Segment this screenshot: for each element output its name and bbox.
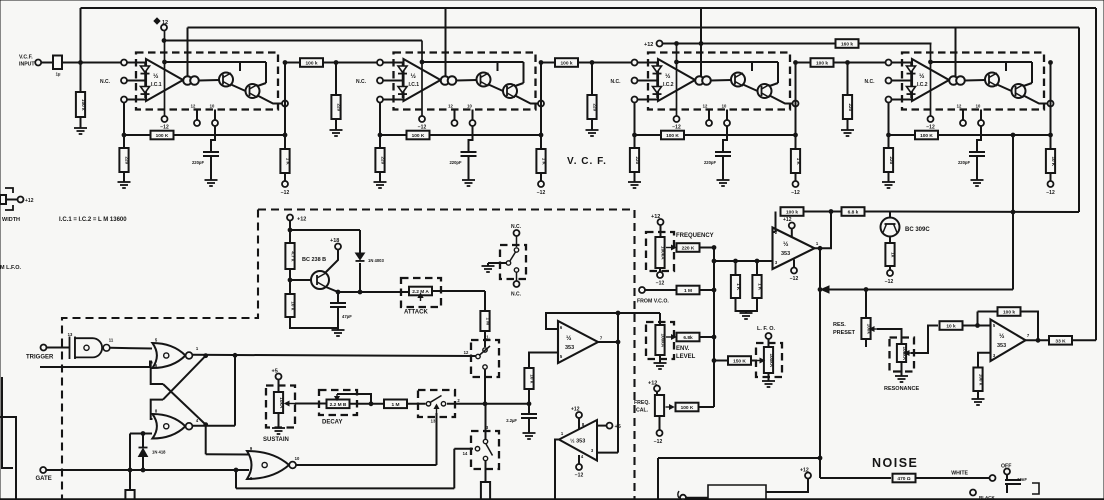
svg-text:M L.F.O.: M L.F.O. [0, 265, 22, 271]
wire load res to -12 stage 4 [1050, 173, 1052, 181]
wire 10k up to pin5 [529, 353, 558, 369]
svg-text:½: ½ [919, 72, 925, 80]
svg-text:220: 220 [125, 156, 130, 164]
wire diode vertical [359, 230, 361, 292]
junction bus env [712, 335, 716, 339]
pot box ATTACK [401, 278, 441, 307]
svg-text:10: 10 [210, 104, 215, 109]
transistor buffer T2 stage 3 [758, 84, 772, 98]
wire freqcal bottom [659, 416, 661, 430]
wire RC cap top [528, 404, 530, 414]
pin terminal signal-in stage 2 [377, 60, 383, 66]
resistor 100k ucv feedback [781, 207, 804, 216]
arrowhead resonance feed [821, 286, 829, 293]
ground res opamp [972, 397, 985, 405]
terminal +12 width [18, 197, 24, 203]
transistor buffer T1 stage 2 [477, 73, 491, 87]
svg-text:V.C.F.: V.C.F. [19, 55, 33, 61]
label OFF [1001, 464, 1011, 470]
junction bus lfo [712, 359, 716, 363]
svg-text:N.C.: N.C. [100, 79, 111, 85]
ground resonance [895, 374, 908, 382]
resistor 160k on +12 rail [0, 0, 1, 1]
wire env out to noise line [658, 457, 820, 459]
ground termination 3-4 [841, 126, 854, 136]
svg-text:100 k: 100 k [816, 61, 828, 67]
resistor 220 termination 3-4 [843, 95, 853, 119]
resistor 100K freqcal [676, 403, 699, 412]
terminal +18 [335, 244, 341, 250]
terminal WHITE [990, 475, 996, 481]
svg-text:12: 12 [191, 104, 196, 109]
label -12 freqcal [654, 439, 663, 445]
wire termination drop 3-4 [847, 63, 849, 96]
pin terminal signal-in stage 4 [886, 60, 892, 66]
terminal +12 noise [805, 473, 811, 479]
pin terminal 12 stage 3 [706, 120, 712, 126]
wire S13 wiper to NOR3 line [436, 413, 438, 465]
gate NAND trigger [68, 332, 114, 359]
wiper arrow FREQUENCY [666, 245, 676, 249]
wire diode to gate line [142, 457, 144, 471]
wire +12 freq stub [660, 225, 662, 237]
svg-text:I.C.1: I.C.1 [409, 82, 420, 88]
wire ucv out [815, 212, 832, 249]
svg-text:10 k: 10 k [530, 374, 535, 383]
diode D-lower stage 2 [398, 87, 407, 95]
svg-text:220: 220 [848, 103, 853, 111]
svg-text:−12: −12 [1046, 190, 1055, 196]
wire 1M to switch11 [484, 331, 486, 347]
ground 220 stage 4 [882, 178, 895, 188]
wire cap to gnd [528, 418, 530, 431]
wire resfb left [978, 311, 999, 313]
label 220pF stage 2 [449, 160, 462, 165]
wire decay to 1M res [350, 403, 384, 405]
gate NOR1 latch [152, 343, 192, 368]
label N.C. stage 1 [100, 79, 111, 85]
svg-text:6.8k: 6.8k [683, 335, 693, 341]
potentiometer LFO 100k [764, 347, 774, 373]
wire termination to gnd 3-4 [847, 119, 849, 126]
pot box LFO [756, 343, 782, 377]
junction emitter node [336, 290, 340, 294]
svg-text:1 K: 1 K [796, 158, 801, 166]
svg-text:FREQ.: FREQ. [634, 400, 650, 406]
wire latch cross 2 stub [151, 400, 163, 419]
terminal -12 bc309 [887, 270, 893, 276]
IC package dashed box stage 1 [136, 53, 278, 110]
svg-text:−12: −12 [791, 190, 800, 196]
terminal +12 stage3 [657, 41, 663, 47]
terminal LFO in [766, 333, 772, 339]
wire feedback line stage 2 [380, 134, 541, 136]
label V.C.F. INPUT line1 [19, 55, 33, 61]
output circles OTA stage 4 [949, 76, 965, 85]
junction input node rail-A [79, 61, 83, 65]
wire RC to 10k res [528, 389, 530, 404]
junction res out fb [1036, 338, 1040, 342]
terminal +12 ucv [789, 223, 795, 229]
op-amp OTA I.C.2 stage 3 [658, 59, 695, 101]
junction output chain stage 2 [539, 61, 543, 65]
ground 2.2uF [523, 431, 536, 439]
wire rail-C +12 stage1 to stage2 [164, 40, 422, 42]
wire T1 collector stage 1 [239, 62, 241, 71]
junction noise line [818, 456, 822, 460]
resistor output load stage 1 [280, 149, 290, 173]
wire OTA out to buffer stage 3 [711, 79, 731, 82]
svg-text:FREQUENCY: FREQUENCY [676, 233, 714, 239]
wire +12 noise drop [766, 479, 808, 493]
svg-text:220pF: 220pF [704, 160, 717, 165]
label SUSTAIN [263, 437, 289, 443]
svg-text:−12: −12 [418, 125, 427, 131]
output circles OTA stage 2 [441, 76, 457, 85]
wire bus rail-B right drop to BC309 collector [1078, 28, 1080, 213]
label V.C.F. section [567, 156, 607, 167]
wire N.C. stub stage 3 [638, 80, 658, 82]
svg-text:−12: −12 [575, 473, 584, 479]
pot box FREQUENCY [646, 232, 674, 271]
capacitor 47pF [330, 303, 346, 307]
svg-text:−12: −12 [926, 125, 935, 131]
wire sustain wiper to decay [295, 403, 326, 405]
svg-text:−12: −12 [537, 190, 546, 196]
wire resonance feed [820, 289, 1013, 291]
wire S11 bottom drop [484, 369, 486, 404]
diode linearizing upper stage 3 [656, 63, 658, 98]
wire NOR1 output line [192, 355, 476, 356]
wire fb node vertical stage 4 [888, 103, 890, 148]
wire T2 collector diag stage 1 [258, 83, 267, 86]
ground cap stage 4 [971, 176, 984, 186]
switch box S11-attack [471, 340, 499, 377]
pin labels U-res [993, 323, 1030, 358]
junction ucv out riser [829, 210, 833, 214]
svg-text:I.C.1: I.C.1 [151, 82, 162, 88]
diode 1N4148 gate [139, 448, 148, 457]
svg-text:10kA: 10kA [279, 397, 284, 409]
capacitor 2.2uF [521, 414, 537, 418]
wire bus +12 top rail [81, 7, 1097, 9]
ground 220 stage 3 [628, 178, 641, 188]
wire 33K to rail [1072, 339, 1096, 341]
wire bus to op pin3 [714, 260, 774, 262]
svg-text:47pF: 47pF [342, 314, 352, 319]
wire S14 drop [453, 449, 455, 489]
wire bc309 base stub [889, 212, 891, 218]
svg-text:100 k: 100 k [1003, 310, 1015, 316]
svg-text:FROM V.C.O.: FROM V.C.O. [637, 299, 669, 305]
svg-text:12: 12 [703, 104, 708, 109]
wire latch to NOR1 line [234, 355, 236, 425]
pin labels 12 10 stage 4 [957, 104, 981, 109]
terminal -12 load stage 4 [1048, 181, 1054, 187]
wire fb-in stub stage 3 [638, 99, 660, 101]
svg-text:100kA: 100kA [661, 246, 666, 260]
svg-text:33 K: 33 K [1055, 338, 1066, 344]
wiper arrow ENV LEVEL [666, 335, 676, 339]
label BC 309C [905, 227, 930, 233]
label NOISE [872, 456, 918, 470]
potentiometer ENV LEVEL 100k [655, 325, 665, 355]
junction rail-C start [162, 39, 166, 43]
ground env pot [654, 361, 667, 369]
wire cap tail [1006, 484, 1008, 493]
wire BC238 emitter [326, 287, 338, 292]
wire 1M to bus [700, 289, 715, 291]
wire T2 emitter to out stage 1 [258, 96, 282, 104]
wire T2 emitter to out stage 4 [1024, 96, 1048, 104]
IC package dashed box stage 2 [394, 53, 536, 110]
pin labels NOR1 [155, 338, 199, 369]
label ENV. [676, 346, 690, 352]
junction env +12 rail [288, 228, 292, 232]
transistor buffer T1 stage 3 [731, 73, 745, 87]
junction decay wiper [369, 402, 373, 406]
junction stage3 drop on rail-C2 [675, 42, 679, 46]
label GATE [36, 476, 52, 482]
wire T2 collector stage 3 [777, 62, 779, 83]
label 220pF stage 1 [192, 160, 205, 165]
wire rail-C2 +12 stage3 to stage4 [663, 43, 932, 45]
pin terminal fb-in stage 3 [632, 97, 638, 103]
resistor 220 termination 2-3 [587, 95, 597, 119]
wire chain stage3-out to stage4-in [796, 62, 913, 64]
svg-text:RES.: RES. [833, 322, 846, 328]
label +12 width [25, 198, 34, 204]
IC package dashed box stage 4 [902, 53, 1044, 110]
wire decay wiper up-over [337, 394, 371, 404]
pot box ENV LEVEL [646, 322, 674, 359]
svg-text:+12: +12 [644, 42, 653, 48]
ground SUSTAIN [272, 426, 285, 434]
wire T2 collector diag stage 3 [770, 83, 779, 86]
junction termination 1-2 [334, 61, 338, 65]
svg-text:12: 12 [464, 350, 469, 355]
svg-text:1 K: 1 K [286, 158, 291, 166]
ground cap stage 2 [462, 176, 475, 186]
svg-text:220pF: 220pF [192, 160, 205, 165]
wire 220 res to gnd stage 3 [634, 172, 636, 178]
label RES. [833, 322, 846, 328]
label +12 envelope [297, 217, 306, 223]
wire T2 collector diag stage 4 [1024, 83, 1033, 86]
wire res preset drop [865, 290, 867, 319]
switch S14 contacts [463, 425, 493, 461]
junction termination 2-3 [590, 61, 594, 65]
svg-text:100 K: 100 K [681, 405, 694, 411]
junction output feedback stage 4 [1049, 133, 1053, 137]
wire +12 env down [289, 221, 291, 244]
capacitor input coupling [53, 56, 62, 77]
junction r1 tap [734, 259, 738, 263]
junction +12 feed stage 4 [929, 60, 933, 64]
pin terminal N.C. stage 2 [377, 78, 383, 84]
trimmer FREQ CAL [655, 395, 664, 416]
capacitor 220pF stage 4 [969, 152, 985, 156]
wire NC common to gnd [488, 262, 508, 264]
capacitor 220pF stage 1 [203, 152, 219, 156]
ground input resistor [74, 124, 87, 134]
svg-text:+12: +12 [25, 198, 34, 204]
wire N.C. stub stage 1 [127, 80, 145, 82]
ground cap stage 1 [205, 176, 218, 186]
svg-text:13: 13 [431, 419, 436, 424]
ground lfo pot [762, 379, 775, 387]
svg-text:1µ: 1µ [56, 72, 61, 77]
op-amp 353 CV summer U-cv [773, 228, 815, 270]
wire +12 comp stub [578, 418, 580, 430]
label DECAY [322, 420, 342, 426]
resistor 100k interstage 3-4 [811, 58, 834, 67]
svg-text:½: ½ [566, 334, 572, 342]
label -12 bc309 [885, 279, 894, 285]
wire bc309 emitter [889, 237, 891, 244]
wire fb node vertical stage 2 [379, 103, 381, 148]
junction +12 feed stage 3 [675, 60, 679, 64]
resistor 1M attack [480, 311, 490, 331]
wire bus rail-A left drop to VCF input node [80, 8, 82, 63]
svg-text:WHITE: WHITE [951, 471, 968, 477]
junction latch line [233, 353, 237, 357]
wire fb to out riser [804, 211, 843, 213]
label +12 noise [800, 468, 809, 474]
wire +5 to pot [278, 380, 280, 393]
ground 220 stage 1 [118, 178, 131, 188]
wire internal V+ rail stage 2 [422, 61, 524, 63]
wire 10k to op [963, 325, 991, 327]
label -12 bias stage 2 [418, 125, 427, 131]
wire noise/res vertical [819, 290, 821, 479]
resistor 220 to ground stage 3 [630, 148, 640, 172]
svg-text:220: 220 [381, 156, 386, 164]
wire pin12 drop stage 3 [708, 110, 710, 121]
svg-text:353: 353 [781, 251, 790, 257]
label V.C.F. INPUT line2 [19, 62, 35, 68]
resistor 220 to ground stage 1 [119, 148, 129, 172]
ground termination 1-2 [330, 126, 343, 136]
svg-text:1 K: 1 K [758, 283, 763, 291]
svg-text:N.C.: N.C. [865, 79, 876, 85]
wire bias vertical stage 1 [164, 31, 166, 116]
wire RC node line [447, 403, 529, 405]
wire fb-in stub stage 1 [127, 99, 147, 101]
resistor 100k interstage 2-3 [555, 58, 578, 67]
wire collector drop [1012, 135, 1014, 290]
resistor output load stage 2 [536, 149, 546, 173]
label PRESET [833, 330, 856, 336]
wire T2 collector stage 2 [523, 62, 525, 83]
wire NOR3 set input [206, 453, 249, 455]
junction output feedback stage 3 [794, 133, 798, 137]
connector bracket noise [1032, 483, 1039, 494]
label LEVEL [676, 354, 696, 360]
terminal +12 frequency [658, 219, 664, 225]
wire sustain pot bottom [278, 413, 280, 426]
wire left edge stub vertical [2, 377, 13, 468]
svg-text:WIDTH: WIDTH [2, 217, 20, 223]
resistor 10k env buffer [524, 368, 534, 389]
wire lfo pot bottom [768, 373, 770, 379]
junction output chain stage 4 [1049, 61, 1053, 65]
wire res gnd stub [977, 391, 979, 397]
svg-text:10nF: 10nF [1017, 477, 1027, 482]
pin labels 12 10 stage 3 [703, 104, 727, 109]
wire 470 to white term [916, 477, 989, 479]
wire latch cross 1 [163, 384, 206, 425]
resistor 220 termination 1-2 [331, 95, 341, 119]
pin terminal 12 stage 2 [452, 120, 458, 126]
wire 150K to pot [751, 360, 756, 362]
resistor 470 noise [893, 474, 916, 483]
svg-text:ATTACK: ATTACK [404, 310, 428, 316]
terminal OFF [1004, 469, 1010, 475]
junction vcf out tap [1011, 133, 1015, 137]
wire res out [1026, 339, 1050, 341]
resistor 220 to ground stage 4 [884, 148, 894, 172]
wire pin12 drop stage 1 [196, 110, 198, 121]
wire op-env out [598, 341, 618, 343]
wiper arrow RES PRESET [870, 327, 877, 331]
terminal -12 load stage 2 [538, 181, 544, 187]
terminal BLACK [970, 490, 976, 496]
svg-text:4.7 k: 4.7 k [291, 251, 296, 262]
wire pin10 to cap stage 3 [723, 126, 727, 152]
junction output feedback stage 1 [283, 133, 287, 137]
junction RC node S11 [483, 402, 487, 406]
resistor 10k resonance [940, 321, 963, 330]
junction output chain stage 3 [794, 61, 798, 65]
resistor 4.7k env [285, 243, 295, 269]
wire res preset tail [865, 339, 867, 347]
op-amp OTA I.C.2 stage 4 [912, 59, 949, 101]
wire gate drop to return [235, 470, 237, 488]
transistor buffer T1 stage 1 [219, 73, 233, 87]
switch N.C. contacts [509, 236, 519, 281]
terminal VCF input [35, 60, 41, 66]
wire output node vertical stage 3 [795, 63, 797, 150]
diode 1N4003 [356, 253, 365, 261]
label +5 out [615, 424, 621, 430]
switch S13 contacts [426, 396, 460, 424]
svg-text:353: 353 [565, 345, 574, 351]
svg-text:½: ½ [665, 72, 671, 80]
wire feedback line stage 3 [635, 134, 796, 136]
svg-text:DECAY: DECAY [322, 420, 342, 426]
wire pin10 to cap stage 2 [469, 126, 473, 152]
envelope section dashed boundary [62, 210, 635, 500]
wire bus rail-A drop stage3 output [700, 8, 702, 77]
resistor 100k res gnd [973, 368, 983, 392]
wire 1M to S13 [407, 403, 426, 405]
svg-text:11: 11 [109, 338, 114, 343]
label 1N4003 [368, 258, 385, 263]
wire T1 emitter to T2 base stage 3 [743, 85, 758, 92]
terminal -12 freqcal [657, 430, 663, 436]
label BLACK [979, 495, 995, 500]
svg-text:L. F. O.: L. F. O. [757, 326, 776, 332]
wire T1 emitter to T2 base stage 4 [997, 85, 1012, 92]
svg-text:10: 10 [722, 104, 727, 109]
wire emitter to attack [338, 291, 410, 293]
wire chain stage1-out to stage2-in [285, 62, 404, 64]
ground cap stage 3 [717, 176, 730, 186]
pin terminal fb-in stage 2 [377, 97, 383, 103]
noise generator box [708, 485, 766, 500]
wire left edge stepped [0, 417, 16, 500]
